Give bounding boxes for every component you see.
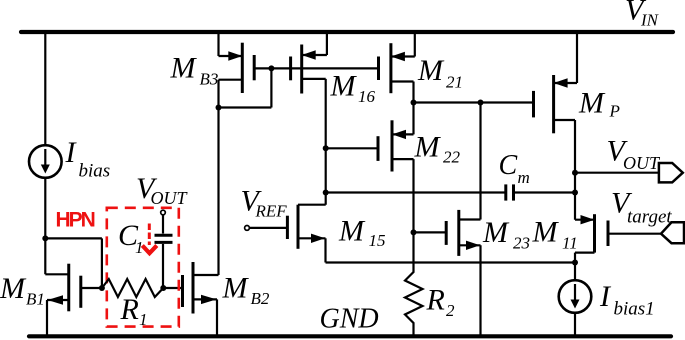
svg-text:M: M (417, 54, 445, 87)
svg-text:2: 2 (446, 301, 455, 320)
svg-text:16: 16 (358, 87, 376, 106)
svg-text:M: M (482, 216, 510, 249)
svg-text:REF: REF (255, 202, 288, 221)
svg-text:M: M (338, 215, 366, 248)
svg-text:M: M (578, 87, 606, 120)
svg-text:R: R (120, 293, 139, 326)
svg-text:11: 11 (562, 233, 578, 252)
svg-text:M: M (222, 272, 250, 305)
svg-text:m: m (518, 168, 530, 187)
svg-text:OUT: OUT (151, 188, 189, 208)
svg-text:P: P (609, 102, 620, 121)
svg-text:22: 22 (443, 148, 461, 167)
svg-text:GND: GND (320, 304, 379, 335)
svg-text:M: M (0, 272, 27, 305)
svg-text:M: M (170, 52, 198, 85)
svg-text:OUT: OUT (623, 153, 661, 173)
svg-text:target: target (627, 207, 672, 228)
svg-text:15: 15 (369, 231, 386, 250)
svg-text:M: M (532, 216, 560, 249)
svg-text:HPN: HPN (56, 209, 95, 232)
svg-text:M: M (414, 131, 442, 164)
svg-text:R: R (426, 284, 445, 317)
svg-text:B3: B3 (200, 70, 219, 89)
svg-text:B1: B1 (26, 290, 45, 309)
svg-text:1: 1 (135, 238, 144, 257)
svg-text:bias1: bias1 (614, 299, 655, 320)
svg-text:C: C (499, 150, 518, 181)
svg-text:21: 21 (446, 73, 463, 92)
svg-text:IN: IN (640, 11, 660, 30)
svg-text:B2: B2 (251, 289, 270, 308)
svg-text:1: 1 (139, 310, 148, 329)
svg-text:23: 23 (513, 233, 530, 252)
svg-text:bias: bias (79, 161, 111, 182)
svg-text:M: M (330, 70, 358, 103)
